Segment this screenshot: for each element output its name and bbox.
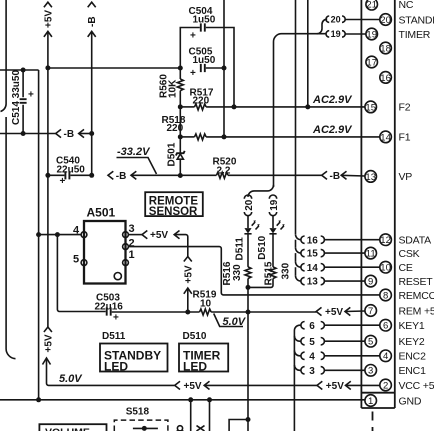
wire: bundle elbow x273.5 rising to y33.7 horizontal bbox=[274, 34, 326, 187]
svg-text:330: 330 bbox=[281, 262, 292, 279]
svg-text:+5V: +5V bbox=[326, 381, 344, 392]
svg-text:220: 220 bbox=[193, 95, 210, 106]
svg-text:SENSOR: SENSOR bbox=[149, 206, 198, 218]
node: junction dot GND rail x38.6 bbox=[36, 397, 41, 402]
power tag -B vertical arrow at x91.7 top bbox=[87, 2, 98, 133]
svg-text:-B: -B bbox=[330, 171, 341, 182]
stub 20 (rotated) top of D511 column bbox=[244, 195, 255, 216]
svg-text:STANDBY: STANDBY bbox=[399, 14, 434, 26]
wire: GND rail y399.8 from left edge to pin 1 bbox=[0, 399, 365, 401]
pin 9 circle bbox=[365, 275, 377, 287]
wire: -B vertical from y133.5 to C540 line bbox=[91, 134, 93, 176]
label box STANDBY LED bbox=[100, 344, 168, 374]
node: junction dot inside S518 bbox=[142, 426, 147, 431]
svg-text:1: 1 bbox=[129, 249, 135, 261]
svg-text:6: 6 bbox=[383, 321, 388, 332]
pin 16 circle bbox=[380, 72, 392, 84]
resistor R517 220 (horizontal on F2 line y106.9) bbox=[180, 88, 214, 110]
svg-text:S518: S518 bbox=[126, 407, 150, 418]
fan branch to stub 5 bbox=[294, 336, 301, 341]
resistor R515 330 (vertical at x273) bbox=[248, 261, 292, 287]
wire: vertical x180.3 between F2 and F1 lines bbox=[179, 107, 181, 137]
fan branch to stub 15 bbox=[296, 248, 301, 262]
diode D501 (vertical at x180.3 between F1 line and VP line) bbox=[167, 137, 185, 176]
fan branch to stub 16 bbox=[296, 234, 301, 247]
svg-text:+: + bbox=[28, 90, 34, 101]
svg-text:CSK: CSK bbox=[399, 248, 420, 260]
label box VOLUME (cut at bottom edge) bbox=[39, 424, 106, 431]
svg-text:NC: NC bbox=[399, 0, 414, 11]
IC A501 remote sensor bbox=[84, 206, 126, 284]
pin 1 circle bbox=[365, 395, 377, 407]
stub to pin 10 labelled 14 bbox=[301, 263, 380, 274]
svg-text:-B: -B bbox=[116, 171, 127, 182]
node: junction dot C514 top bbox=[21, 68, 26, 73]
node: junction dot C514 bottom on -B line bbox=[21, 131, 26, 136]
svg-text:+: + bbox=[190, 68, 196, 79]
A501 pin 4 (left top) bbox=[73, 225, 87, 238]
svg-text:D501: D501 bbox=[167, 142, 178, 166]
node: junction dot x224 y68 bbox=[222, 66, 227, 71]
node: junction dot x248 on REM+5V line bbox=[246, 310, 251, 315]
connector CN body right edge bbox=[394, 0, 396, 408]
svg-text:5: 5 bbox=[368, 337, 373, 348]
LED D511 (vertical at x248) bbox=[234, 216, 259, 267]
node: junction dot x224 on F1 line bbox=[222, 134, 227, 139]
fan branch to stub 4 bbox=[294, 351, 301, 356]
wire: C504 branch up and right bbox=[180, 28, 200, 69]
fan branch to stub 13 (end of bundle) bbox=[296, 276, 301, 281]
svg-text:8: 8 bbox=[383, 290, 388, 301]
wire: vertical x190.7 from GND rail to bottom edge bbox=[190, 400, 192, 431]
node: junction dot x57.4 on pin4 line bbox=[55, 232, 60, 237]
stub to pin 4 labelled 4 bbox=[301, 351, 380, 362]
svg-text:17: 17 bbox=[366, 57, 377, 68]
svg-text:1u50: 1u50 bbox=[193, 55, 216, 66]
wire: bundle vertical x294.4 for stubs 6,5,4,3 bbox=[294, 325, 301, 431]
node: junction dot x38.6 on pin4 line bbox=[36, 232, 41, 237]
pin 20 circle bbox=[380, 14, 392, 26]
svg-text:3: 3 bbox=[368, 366, 373, 377]
fan branch to stub 14 bbox=[296, 262, 301, 276]
stub to pin 12 labelled 16 bbox=[301, 235, 380, 246]
crossed-wires glyph at bottom edge bbox=[197, 426, 205, 431]
wire: left edge vertical lower segment with bottom-right curl bbox=[6, 117, 15, 359]
svg-text:5: 5 bbox=[73, 254, 79, 266]
node: junction dot C540 left at x47.9 bbox=[45, 173, 50, 178]
svg-text:CE: CE bbox=[399, 262, 413, 274]
svg-text:+: + bbox=[60, 176, 66, 187]
fan branch to stub 3 bbox=[294, 365, 301, 370]
stub to pin 19 (hook, number, hook) at y33.7 bbox=[326, 29, 366, 39]
svg-text:20: 20 bbox=[244, 199, 255, 211]
svg-text:4: 4 bbox=[309, 351, 315, 362]
svg-text:-B: -B bbox=[87, 16, 98, 27]
node: junction dot GND rail x209.5 bbox=[207, 397, 212, 402]
svg-text:5.0V: 5.0V bbox=[59, 373, 83, 385]
pin 18 circle bbox=[380, 42, 392, 54]
net tag +5V continuation (chevron + label + arrow) at x47.9 below C540 line bbox=[43, 175, 175, 385]
wire: vertical x209.5 from GND rail to bottom edge bbox=[209, 400, 211, 431]
node: junction dot GND rail x190.7 bbox=[188, 397, 193, 402]
pin 8 circle bbox=[380, 289, 392, 301]
svg-text:VOLUME: VOLUME bbox=[45, 427, 90, 431]
svg-text:REM +5V: REM +5V bbox=[399, 305, 434, 317]
svg-text:15: 15 bbox=[365, 102, 376, 113]
svg-text:REMCON: REMCON bbox=[399, 290, 434, 302]
node: junction dot rail / R560 / C504 branch bbox=[178, 66, 183, 71]
stub to pin 5 labelled 5 bbox=[301, 337, 365, 348]
svg-text:14: 14 bbox=[307, 263, 319, 274]
svg-text:20: 20 bbox=[331, 14, 341, 24]
net tag +5V mid line (chevron, label, arrowhead) on y385.4 bbox=[175, 381, 317, 392]
pin 14 circle bbox=[380, 131, 392, 143]
svg-text:A501: A501 bbox=[87, 206, 116, 220]
pin 3 circle bbox=[365, 365, 377, 377]
node: junction dot R518 top at x180.3 bbox=[178, 134, 183, 139]
svg-text:16: 16 bbox=[307, 235, 319, 246]
svg-text:3: 3 bbox=[309, 366, 315, 377]
stub to pin 6 labelled 6 bbox=[301, 321, 380, 332]
svg-text:+5V: +5V bbox=[184, 381, 202, 392]
svg-text:2.2: 2.2 bbox=[217, 166, 231, 177]
wire: F2 line y106.9 from R517 to pin 15 bbox=[206, 106, 365, 108]
net tag -B on VP line (chevron, label, arrowhead) bbox=[108, 171, 180, 182]
node: junction dot C540 right / -B vertical bottom bbox=[89, 173, 94, 178]
resistor R518 220 (horizontal on F1 line y136.9) bbox=[162, 115, 207, 140]
pin 11 circle bbox=[365, 247, 377, 259]
LED D510 (vertical at x273) bbox=[257, 216, 285, 267]
svg-text:ENC2: ENC2 bbox=[399, 351, 427, 363]
svg-text:C514 33u50: C514 33u50 bbox=[11, 70, 22, 125]
wire: vertical x307.8 from top edge to F2 line bbox=[307, 0, 309, 107]
A501 index circle inside body bbox=[114, 273, 121, 280]
resistor R560 10K (vertical at x180.3) bbox=[159, 68, 184, 107]
svg-text:16: 16 bbox=[380, 73, 391, 84]
svg-text:+5V: +5V bbox=[43, 334, 54, 352]
A501 pin 5 (left bottom) bbox=[73, 254, 87, 266]
wire: left edge vertical entering from top bbox=[1, 0, 7, 112]
svg-text:AC2.9V: AC2.9V bbox=[312, 124, 353, 136]
pin 17 circle bbox=[366, 56, 378, 68]
svg-text:2: 2 bbox=[383, 380, 388, 391]
node: junction dot x234 on F2 line bbox=[232, 104, 237, 109]
node: junction dot +5V arrow / R519 bbox=[185, 310, 190, 315]
net tag +5V before pin 2 bbox=[317, 381, 380, 392]
svg-text:3: 3 bbox=[129, 223, 135, 235]
svg-text:21: 21 bbox=[366, 0, 377, 11]
svg-text:12: 12 bbox=[380, 235, 391, 246]
svg-text:11: 11 bbox=[366, 249, 376, 260]
node: junction dot D501 bottom on VP line bbox=[178, 173, 183, 178]
net tag -B (left chevron, label, arrowhead) on y133.5 bbox=[56, 129, 92, 140]
svg-text:19: 19 bbox=[331, 29, 341, 39]
wire: branch x57.4 down to C503 line bbox=[57, 235, 105, 312]
svg-text:13: 13 bbox=[365, 172, 376, 183]
resistor R519 10 (horizontal on y312) bbox=[193, 290, 217, 316]
svg-text:6: 6 bbox=[309, 321, 315, 332]
svg-text:13: 13 bbox=[307, 277, 319, 288]
capacitor C540 22u50 (series on VP/-B line y175.3) bbox=[48, 156, 92, 188]
svg-text:F2: F2 bbox=[399, 102, 411, 114]
svg-text:+5V: +5V bbox=[150, 230, 168, 241]
pin 5 circle bbox=[365, 335, 377, 347]
stub to pin 3 labelled 3 bbox=[301, 366, 365, 377]
svg-text:R515: R515 bbox=[264, 261, 275, 285]
label box REMOTE SENSOR bbox=[145, 192, 203, 218]
svg-text:19: 19 bbox=[269, 199, 280, 211]
svg-text:D510: D510 bbox=[183, 331, 207, 342]
pin 13 circle bbox=[365, 171, 377, 183]
svg-text:18: 18 bbox=[380, 43, 391, 54]
wire: vertical x224 from top edge through y68 down to F1 line bbox=[223, 0, 225, 137]
node: junction dot x248 y419.5 bbox=[246, 417, 251, 422]
capacitor C505 1u50 (series on rail y68) bbox=[189, 46, 216, 79]
node: junction dot R560 / R517 bbox=[178, 104, 183, 109]
wire: F1 line y136.9 from x224 to pin 14 bbox=[206, 136, 380, 138]
capacitor C514 33u50 (vertical, between y70 and -B line) bbox=[11, 70, 34, 134]
svg-text:AC2.9V: AC2.9V bbox=[312, 94, 353, 106]
svg-text:7: 7 bbox=[368, 306, 373, 317]
wire: C503 right to R519 bbox=[112, 311, 200, 313]
svg-text:10: 10 bbox=[200, 298, 212, 309]
pin 19 circle bbox=[366, 28, 378, 40]
pin 7 circle bbox=[365, 305, 377, 317]
svg-text:4: 4 bbox=[383, 351, 388, 362]
A501 pin 3 (right top) bbox=[123, 223, 135, 238]
svg-text:+5V: +5V bbox=[43, 10, 54, 28]
svg-text:D510: D510 bbox=[257, 235, 268, 259]
svg-text:1u50: 1u50 bbox=[193, 15, 216, 26]
switch S518 dashed box bbox=[114, 420, 168, 431]
connector signal name labels bbox=[399, 0, 434, 407]
stub 19 (rotated) top of D510 column bbox=[269, 195, 280, 216]
pin 6 circle bbox=[380, 319, 392, 331]
A501 pin 2 (right middle) bbox=[123, 238, 135, 250]
svg-text:KEY2: KEY2 bbox=[399, 336, 425, 348]
wire: bundle vertical x295.5 from top edge down to 13-16 fan bbox=[295, 0, 297, 234]
connector shield dashed line below pin 1 bbox=[372, 412, 374, 431]
svg-text:330: 330 bbox=[232, 264, 243, 281]
voltage callout -33.2V with leader to VP line bbox=[117, 146, 157, 174]
svg-text:5: 5 bbox=[309, 337, 315, 348]
wire: main +5V rail y68 from x47.9 to C505 bbox=[48, 67, 180, 69]
net tag -B before pin 13 bbox=[322, 171, 365, 182]
stub to pin 9 labelled 13 bbox=[301, 277, 365, 288]
power tag +5V vertical arrow at x47.9 top bbox=[43, 2, 54, 68]
svg-text:20: 20 bbox=[380, 15, 391, 26]
power tag +5V above R519 bbox=[183, 265, 194, 312]
wire: C504 right side to x234 then down to F2 line bbox=[206, 28, 234, 107]
wire: rail from C505 to x224 bbox=[206, 67, 224, 69]
svg-text:22u16: 22u16 bbox=[95, 302, 124, 313]
svg-text:2: 2 bbox=[129, 238, 135, 250]
svg-text:22u50: 22u50 bbox=[57, 165, 86, 176]
svg-text:VP: VP bbox=[399, 171, 413, 183]
svg-text:-33.2V: -33.2V bbox=[117, 146, 151, 158]
svg-text:KEY1: KEY1 bbox=[399, 320, 425, 332]
pin 4 circle bbox=[380, 350, 392, 362]
svg-text:VCC +5V: VCC +5V bbox=[399, 380, 434, 392]
wire: S-bend from bundle x273.5 left to stub-20 column bbox=[248, 185, 274, 197]
svg-text:1: 1 bbox=[368, 396, 373, 407]
node: junction dot +5V rail x47.9 bbox=[45, 65, 50, 70]
connector CN body left edge bbox=[360, 0, 362, 408]
wire: A501 pin 2 to REMCON corner bbox=[128, 247, 380, 295]
connector GND compartment separator bbox=[361, 392, 394, 394]
wire: +5V vertical x47.9 down to C540 line bbox=[47, 68, 49, 175]
wire: L from x248 to x229 then down bbox=[229, 420, 248, 431]
svg-text:LED: LED bbox=[183, 359, 207, 373]
node: junction dot -B line / -B vertical bbox=[89, 131, 94, 136]
voltage callout 5.0V with leader on REM+5V line bbox=[214, 314, 247, 329]
switch contact glyph (circle with base) at bottom edge bbox=[177, 426, 184, 431]
connector body bottom edge bbox=[361, 407, 394, 409]
pin 10 circle bbox=[380, 261, 392, 273]
svg-text:+: + bbox=[190, 31, 196, 42]
wire: D511/R516 column continues down to S518 junction bbox=[247, 287, 249, 431]
pin 15 circle bbox=[365, 101, 377, 113]
wire: top-left horizontal at y70 to long vertical bbox=[0, 69, 39, 71]
svg-text:9: 9 bbox=[368, 277, 373, 288]
A501 pin 1 (right lower) bbox=[123, 249, 135, 265]
svg-text:19: 19 bbox=[366, 29, 377, 40]
stub to pin 20 (hook, number, hook) at y18.6 bbox=[326, 14, 380, 24]
wire: -B horizontal line y133.5 from left edge bbox=[0, 133, 56, 135]
node: junction dot x307.8 on F2 line bbox=[305, 104, 310, 109]
svg-text:D511: D511 bbox=[102, 331, 126, 342]
svg-text:D511: D511 bbox=[234, 237, 245, 261]
net tag +5V before pin 7 bbox=[316, 307, 365, 318]
wire: A501 pin 4 line with junction dots bbox=[39, 234, 82, 236]
svg-text:TIMER: TIMER bbox=[399, 29, 431, 41]
svg-text:-B: -B bbox=[64, 129, 75, 140]
svg-text:LED: LED bbox=[104, 359, 128, 373]
net tag +5V at A501 pin 3 bbox=[128, 230, 192, 261]
svg-text:GND: GND bbox=[399, 395, 422, 407]
pin 12 circle bbox=[380, 234, 392, 246]
svg-text:ENC1: ENC1 bbox=[399, 365, 427, 377]
svg-text:SDATA: SDATA bbox=[399, 235, 432, 247]
svg-text:+: + bbox=[113, 313, 119, 324]
svg-text:10K: 10K bbox=[168, 79, 179, 98]
wire: S-branch from y33.7 bundle up to pin20 stub level y18.6 bbox=[317, 19, 327, 34]
pin 2 circle bbox=[380, 379, 392, 391]
capacitor C504 1u50 (series on y27.5) bbox=[189, 6, 216, 41]
svg-text:14: 14 bbox=[380, 132, 391, 143]
node: junction dot R516/R515 bottoms bbox=[246, 285, 251, 290]
wire: long vertical x38.6 from y70 to GND rail and VOLUME box bbox=[38, 70, 40, 400]
svg-text:5.0V: 5.0V bbox=[223, 316, 247, 328]
capacitor C503 22u16 (series on y311.5/312 line) bbox=[95, 293, 124, 324]
svg-text:RESET: RESET bbox=[399, 276, 434, 288]
label box TIMER LED bbox=[179, 344, 228, 374]
resistor R520 2.2 (horizontal on VP line) bbox=[180, 157, 321, 179]
pin 21 circle bbox=[366, 0, 378, 11]
switch S518 internal contact line bbox=[133, 427, 158, 429]
svg-text:+5V: +5V bbox=[325, 307, 343, 318]
wire: R519 to pin7 chevron bbox=[211, 311, 316, 313]
svg-text:+5V: +5V bbox=[183, 265, 194, 283]
svg-text:15: 15 bbox=[307, 249, 319, 260]
svg-text:10: 10 bbox=[380, 263, 391, 274]
svg-text:F1: F1 bbox=[399, 132, 411, 144]
stub to pin 11 labelled 15 bbox=[301, 249, 365, 260]
resistor R516 330 (vertical at x248) bbox=[222, 261, 251, 287]
